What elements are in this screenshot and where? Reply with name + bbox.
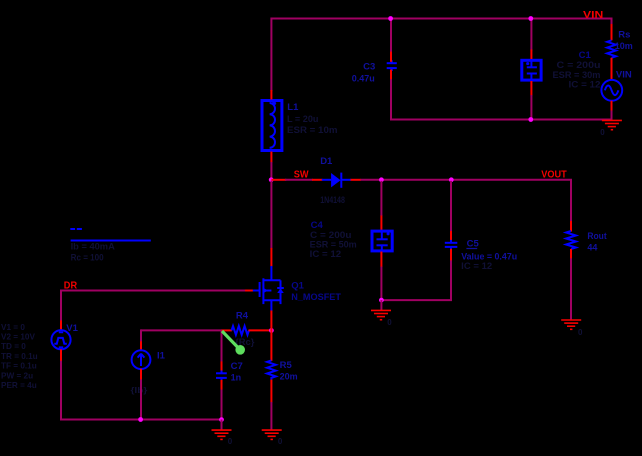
svg-text:1n: 1n bbox=[231, 373, 242, 383]
lead L1 top bbox=[270, 90, 272, 100]
lead C5 top bbox=[450, 231, 452, 241]
label R5 bbox=[280, 360, 293, 371]
label L1 bbox=[287, 102, 299, 113]
capacitor C3 bbox=[387, 60, 397, 71]
wire DR corner to V1 bbox=[60, 290, 62, 322]
inductor L1 bbox=[262, 101, 282, 151]
svg-text:IC = 12: IC = 12 bbox=[310, 249, 342, 259]
lead Rs to VIN source bbox=[611, 58, 613, 80]
label D1 bbox=[320, 156, 333, 167]
value C4 ESR=50m bbox=[310, 240, 357, 250]
svg-text:V1: V1 bbox=[66, 323, 78, 334]
junction C7 bottom rail bbox=[219, 417, 224, 422]
label R4 bbox=[236, 311, 249, 322]
lead C7 top bbox=[221, 361, 223, 371]
svg-text:0: 0 bbox=[578, 328, 583, 337]
value C7 1n bbox=[231, 373, 242, 383]
svg-text:DR: DR bbox=[64, 280, 78, 291]
value C5 IC=12 bbox=[461, 261, 492, 271]
svg-text:ESR = 30m: ESR = 30m bbox=[553, 70, 601, 80]
text block line Ib bbox=[71, 242, 116, 252]
svg-text:D1: D1 bbox=[320, 156, 333, 167]
label Rout bbox=[587, 231, 607, 242]
value D1 model bbox=[320, 195, 345, 205]
wire VOUT rail bbox=[361, 180, 572, 222]
label C3 bbox=[363, 62, 375, 73]
junction SW bbox=[269, 177, 274, 182]
lead Q1 source to node bbox=[270, 311, 272, 332]
label C1 bbox=[579, 50, 592, 61]
label 0 ground C4 bbox=[387, 318, 392, 327]
svg-text:Rout: Rout bbox=[587, 231, 607, 242]
lead C3 bottom bbox=[390, 70, 392, 80]
ground top right bbox=[602, 120, 622, 129]
svg-text:L1: L1 bbox=[287, 102, 299, 113]
svg-text:PER = 4u: PER = 4u bbox=[1, 381, 37, 390]
svg-text:N_MOSFET: N_MOSFET bbox=[291, 292, 341, 303]
value R4 Rc bbox=[235, 337, 255, 347]
label C5 underlined bbox=[466, 238, 479, 249]
source I1 current bbox=[132, 350, 151, 369]
value L1 L=20u bbox=[287, 114, 319, 124]
wire I1 to bottom rail bbox=[140, 379, 142, 419]
wire VIN rail to C1 bbox=[530, 18, 532, 51]
svg-text:R5: R5 bbox=[280, 360, 293, 371]
svg-text:C3: C3 bbox=[363, 62, 375, 73]
wire C7 to bottom rail bbox=[221, 390, 223, 420]
svg-text:0.47u: 0.47u bbox=[352, 73, 375, 83]
junction VOUT-C5 bbox=[449, 177, 454, 182]
value I1 Ib bbox=[131, 386, 149, 395]
label V1 bbox=[66, 323, 78, 334]
lead Rout bottom bbox=[570, 249, 572, 259]
wire top VIN rail bbox=[271, 18, 611, 20]
value C5 Value=0.47u bbox=[461, 251, 517, 261]
svg-text:TF = 0.1u: TF = 0.1u bbox=[1, 362, 37, 371]
value V1 line4 bbox=[1, 352, 38, 361]
value C4 C=200u bbox=[310, 230, 352, 240]
svg-text:Ib = 40mA: Ib = 40mA bbox=[71, 242, 116, 252]
svg-text:{Ib}: {Ib} bbox=[131, 386, 149, 395]
resistor R4 bbox=[232, 326, 250, 335]
lead SW node right bbox=[271, 179, 286, 181]
wire stub to ground C4 bbox=[380, 300, 382, 310]
value L1 ESR=10m bbox=[287, 125, 338, 135]
lead L1 bottom bbox=[270, 152, 272, 163]
svg-text:10m: 10m bbox=[615, 41, 633, 51]
lead D1 anode bbox=[312, 179, 323, 181]
svg-text:0: 0 bbox=[600, 128, 605, 137]
lead V1 bottom bbox=[60, 349, 62, 361]
lead Q1 drain bbox=[270, 248, 272, 267]
svg-text:44: 44 bbox=[587, 243, 597, 253]
wire C7 node down bbox=[221, 330, 223, 362]
lead C3 top bbox=[390, 52, 392, 62]
lead R4 left bbox=[222, 329, 232, 331]
value Rout 44 bbox=[587, 243, 597, 253]
value C1 ESR=30m bbox=[553, 70, 601, 80]
svg-text:VOUT: VOUT bbox=[541, 170, 566, 181]
label 0 ground bottom left bbox=[228, 437, 233, 446]
wire I1 row to R4 node bbox=[141, 329, 222, 331]
node VIN label bbox=[583, 10, 603, 21]
wire I1 top bbox=[140, 329, 142, 341]
value Q1 N_MOSFET bbox=[291, 292, 341, 303]
lead C4 bottom bbox=[380, 252, 382, 268]
value V1 line1 bbox=[1, 323, 25, 332]
lead V1 top bbox=[60, 320, 62, 330]
value C3 0.47u bbox=[352, 73, 375, 83]
wire ground rail top section bbox=[391, 119, 612, 121]
wire VIN rail to C3 bbox=[390, 18, 392, 53]
value V1 line3 bbox=[1, 342, 26, 351]
svg-text:TD = 0: TD = 0 bbox=[1, 342, 26, 351]
ground bottom left bbox=[212, 430, 232, 439]
resistor Rout bbox=[566, 231, 576, 249]
svg-text:L = 20u: L = 20u bbox=[287, 114, 319, 124]
transistor Q1 N_MOSFET bbox=[252, 266, 284, 311]
source V1 pulse bbox=[51, 330, 70, 349]
lead R5 bottom bbox=[270, 380, 272, 403]
wire C1 to ground rail bbox=[530, 95, 532, 121]
svg-text:C7: C7 bbox=[231, 361, 243, 372]
node DR label bbox=[64, 280, 78, 291]
label 0 top right ground bbox=[600, 128, 605, 137]
svg-text:IC = 12: IC = 12 bbox=[569, 80, 601, 90]
svg-text:1N4148: 1N4148 bbox=[320, 195, 345, 205]
value R5 20m bbox=[280, 372, 298, 382]
wire V1 to bottom rail bbox=[61, 361, 222, 420]
wire C4 to mid ground rail bbox=[380, 267, 382, 301]
diode D1 bbox=[322, 173, 351, 188]
lead R4 right bbox=[249, 329, 272, 331]
text block dashes bbox=[70, 228, 82, 230]
label C7 bbox=[231, 361, 243, 372]
junction C1-ground rail bbox=[528, 117, 533, 122]
capacitor C7 bbox=[216, 371, 227, 381]
value C1 C=200u bbox=[557, 60, 601, 70]
label Rs bbox=[618, 30, 630, 41]
svg-text:ESR = 10m: ESR = 10m bbox=[287, 125, 338, 135]
label C4 bbox=[311, 220, 324, 231]
node SW label bbox=[294, 170, 309, 181]
source VIN sine bbox=[601, 80, 622, 101]
junction VOUT-C4 bbox=[379, 177, 384, 182]
value C1 IC=12 bbox=[569, 80, 601, 90]
lead C1 top bbox=[530, 50, 532, 60]
ground C4 bbox=[371, 310, 391, 319]
lead C4 top bbox=[380, 216, 382, 231]
junction mid ground rail bbox=[379, 298, 384, 303]
svg-text:VIN: VIN bbox=[583, 10, 603, 21]
svg-text:0: 0 bbox=[278, 437, 283, 446]
value C4 IC=12 bbox=[310, 249, 342, 259]
svg-text:C = 200u: C = 200u bbox=[557, 60, 601, 70]
label 0 ground bottom right bbox=[278, 437, 283, 446]
lead C1 bottom bbox=[530, 81, 532, 96]
value V1 line6 bbox=[1, 371, 33, 380]
svg-text:PW = 2u: PW = 2u bbox=[1, 371, 33, 380]
text block line Rc bbox=[71, 252, 104, 262]
value V1 line2 bbox=[1, 333, 35, 342]
wire C3 to ground rail bbox=[390, 79, 392, 120]
wire L1 to SW node bbox=[270, 162, 272, 181]
svg-text:0: 0 bbox=[228, 437, 233, 446]
svg-text:ESR = 50m: ESR = 50m bbox=[310, 240, 357, 250]
wire SW to Q1 drain bbox=[270, 181, 272, 249]
wire C5 to mid ground rail bbox=[381, 260, 451, 300]
wire SW to D1 bbox=[285, 179, 313, 181]
lead VIN source bottom bbox=[611, 101, 613, 111]
svg-text:Q1: Q1 bbox=[291, 280, 304, 291]
label 0 ground Rout bbox=[578, 328, 583, 337]
ground bottom right bbox=[262, 430, 282, 439]
wire stub to ground bottom left bbox=[221, 420, 223, 431]
svg-text:Rc = 100: Rc = 100 bbox=[71, 252, 104, 262]
wire VIN source to ground bbox=[611, 111, 613, 121]
wire Rout to ground bbox=[570, 258, 572, 320]
lead C5 bottom bbox=[450, 249, 452, 261]
capacitor C5 bbox=[445, 240, 458, 250]
ground Rout bbox=[561, 320, 581, 329]
lead C7 bottom bbox=[221, 380, 223, 390]
junction VIN-C1 bbox=[528, 16, 533, 21]
svg-text:VIN: VIN bbox=[616, 70, 632, 81]
lead Rout top bbox=[570, 221, 572, 232]
value Rs 10m bbox=[615, 41, 633, 51]
lead D1 cathode bbox=[351, 179, 362, 181]
wire VIN rail to L1 bbox=[270, 18, 272, 92]
wire DR to Q1 gate bbox=[61, 290, 245, 292]
lead R5 top bbox=[270, 330, 272, 361]
wire R5 to ground bbox=[270, 402, 272, 430]
junction I1 bottom rail bbox=[138, 417, 143, 422]
svg-text:V2 = 10V: V2 = 10V bbox=[1, 333, 35, 342]
svg-text:Rs: Rs bbox=[618, 30, 630, 41]
resistor Rs bbox=[607, 40, 616, 58]
lead I1 top bbox=[140, 341, 142, 351]
svg-text:R4: R4 bbox=[236, 311, 249, 322]
svg-text:TR = 0.1u: TR = 0.1u bbox=[1, 352, 38, 361]
svg-text:V1 = 0: V1 = 0 bbox=[1, 323, 25, 332]
svg-text:I1: I1 bbox=[157, 350, 166, 361]
lead Q1 gate bbox=[244, 290, 253, 292]
capacitor C4 electrolytic bbox=[372, 231, 392, 251]
node VOUT label bbox=[541, 170, 566, 181]
label VIN source bbox=[616, 70, 632, 81]
label I1 bbox=[157, 350, 166, 361]
label Q1 bbox=[291, 280, 304, 291]
resistor R5 bbox=[267, 360, 276, 379]
probe green bbox=[222, 331, 245, 355]
wire VOUT to C5 bbox=[450, 181, 452, 232]
svg-text:IC = 12: IC = 12 bbox=[461, 261, 492, 271]
lead I1 bottom bbox=[140, 369, 142, 380]
svg-text:0: 0 bbox=[387, 318, 392, 327]
svg-text:20m: 20m bbox=[280, 372, 298, 382]
capacitor C1 electrolytic bbox=[522, 60, 541, 80]
value V1 line7 bbox=[1, 381, 37, 390]
wire VOUT to C4 bbox=[380, 181, 382, 216]
junction VIN-C3 bbox=[388, 16, 393, 21]
wire VIN rail to Rs bbox=[611, 18, 613, 41]
text block underline bbox=[71, 240, 151, 242]
svg-text:C5: C5 bbox=[467, 238, 480, 249]
value V1 line5 bbox=[1, 362, 37, 371]
junction R4-Q1 source node bbox=[269, 328, 274, 333]
